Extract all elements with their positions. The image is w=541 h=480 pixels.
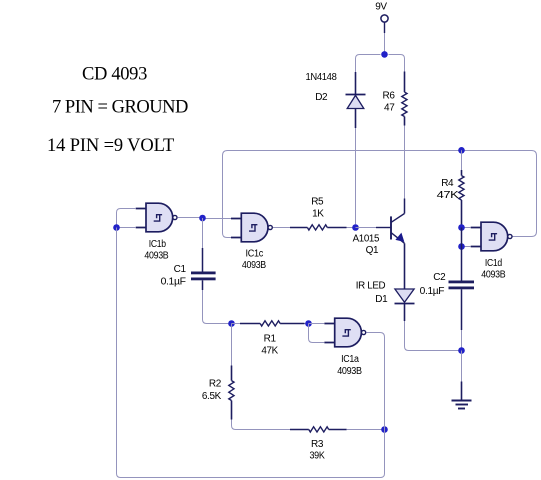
- wire R6 to Q1 emitter: [404, 126, 406, 199]
- IR LED D1: [395, 289, 415, 321]
- svg-text:4093B: 4093B: [144, 251, 169, 262]
- node IC1d input A: [458, 224, 465, 231]
- wire IC1a output feedback loop to IC1b input: [117, 228, 385, 478]
- wire IC1b output to junction: [178, 218, 231, 219]
- node IC1b input junction: [113, 224, 120, 231]
- resistor R6: [402, 72, 407, 126]
- svg-text:A1015: A1015: [353, 234, 380, 245]
- node IC1d input B: [458, 243, 465, 250]
- svg-text:47K: 47K: [261, 346, 278, 357]
- wire D2 anode to base node: [355, 128, 357, 224]
- svg-text:14 PIN =9 VOLT: 14 PIN =9 VOLT: [47, 136, 174, 156]
- resistor R4: [459, 150, 464, 227]
- svg-text:IC1d: IC1d: [485, 258, 502, 269]
- wire top node to D2 branch: [356, 55, 381, 73]
- wire IC1d input rail: [462, 228, 471, 247]
- svg-text:47: 47: [384, 103, 395, 114]
- wire top node to R6 branch: [389, 55, 405, 72]
- wire IC1b output to C1: [202, 218, 204, 248]
- wire R5 to base node: [347, 227, 356, 229]
- svg-text:IC1b: IC1b: [149, 239, 167, 250]
- svg-text:R3: R3: [311, 439, 324, 450]
- svg-text:R1: R1: [264, 334, 277, 345]
- svg-text:C1: C1: [174, 264, 187, 275]
- svg-text:R4: R4: [441, 178, 454, 189]
- diode D2 1N4148: [346, 72, 366, 128]
- svg-text:D1: D1: [375, 294, 388, 305]
- resistor R1: [232, 321, 309, 326]
- resistor R5: [290, 225, 347, 230]
- 9V supply terminal: [381, 15, 388, 22]
- node ground junction: [458, 347, 465, 354]
- svg-text:Q1: Q1: [366, 245, 379, 256]
- wire IC1c output to R5: [273, 227, 290, 229]
- transistor Q1 A1015: [391, 214, 405, 244]
- svg-text:0.1µF: 0.1µF: [161, 277, 186, 288]
- wire C1 to R1 node: [202, 280, 204, 290]
- svg-text:IC1c: IC1c: [246, 248, 264, 259]
- gate IC1c (NAND 4093): [231, 213, 272, 242]
- svg-text:IR LED: IR LED: [356, 281, 386, 292]
- svg-text:R5: R5: [311, 197, 324, 208]
- svg-text:R2: R2: [209, 378, 222, 389]
- resistor R2: [229, 366, 234, 420]
- node Q1 base junction: [352, 224, 359, 231]
- node rail R4 junction: [458, 147, 465, 154]
- svg-text:9V: 9V: [375, 2, 387, 13]
- svg-text:4093B: 4093B: [242, 260, 267, 271]
- node R3 feedback junction: [381, 426, 388, 433]
- svg-text:CD 4093: CD 4093: [82, 65, 147, 85]
- svg-text:7 PIN = GROUND: 7 PIN = GROUND: [52, 98, 188, 118]
- svg-text:R6: R6: [383, 91, 396, 102]
- wire R2 to R3: [232, 420, 291, 430]
- node top supply junction: [381, 51, 388, 58]
- svg-text:6.5K: 6.5K: [202, 391, 222, 402]
- wire C2 to ground node: [461, 289, 463, 330]
- wire IC1b inputs tied: [117, 209, 137, 228]
- node R1 IC1a junction: [305, 320, 312, 327]
- wire base node to Q1: [356, 227, 377, 229]
- capacitor C2: [449, 281, 475, 290]
- wire 9V terminal to top node: [384, 22, 386, 33]
- gate IC1d (NAND 4093): [471, 222, 512, 251]
- svg-text:C2: C2: [433, 272, 446, 283]
- node C1 R1 R2 junction: [228, 320, 235, 327]
- svg-text:D2: D2: [315, 92, 328, 103]
- svg-text:1N4148: 1N4148: [306, 72, 338, 83]
- svg-text:47K: 47K: [437, 190, 459, 201]
- wire LED cathode to ground node: [405, 321, 462, 351]
- ground: [452, 401, 472, 409]
- svg-text:1K: 1K: [312, 209, 324, 220]
- node IC1b output junction: [199, 215, 206, 222]
- resistor R3: [290, 427, 347, 432]
- wire Q1 collector to LED: [404, 243, 406, 289]
- wire ground node to ground: [461, 351, 463, 382]
- wire feedback rail IC1d output to IC1c input: [223, 151, 537, 238]
- svg-text:39K: 39K: [310, 450, 326, 461]
- wire R1 node to IC1a inputs: [309, 324, 325, 343]
- gate IC1b (NAND 4093): [136, 203, 177, 232]
- wire R3 to feedback node: [347, 429, 385, 431]
- svg-text:0.1µF: 0.1µF: [420, 286, 445, 297]
- gate IC1a (NAND 4093): [324, 318, 365, 347]
- svg-text:IC1a: IC1a: [341, 354, 359, 365]
- svg-text:4093B: 4093B: [481, 270, 506, 281]
- svg-text:4093B: 4093B: [337, 366, 362, 377]
- wire IC1d inputs to C2: [461, 228, 463, 281]
- wire R1 node down to R2: [231, 324, 233, 366]
- capacitor C1: [191, 272, 216, 281]
